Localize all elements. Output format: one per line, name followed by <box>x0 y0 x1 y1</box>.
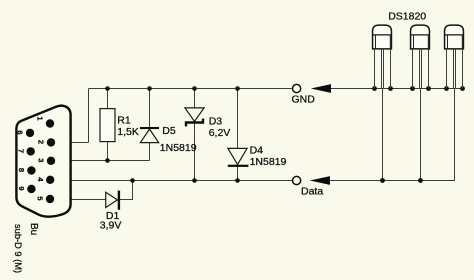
svg-text:sub-D 9 (M): sub-D 9 (M) <box>13 224 23 273</box>
svg-text:6: 6 <box>16 130 25 134</box>
svg-text:2: 2 <box>37 140 46 144</box>
svg-text:DS1820: DS1820 <box>388 10 426 22</box>
svg-text:1: 1 <box>36 116 45 120</box>
svg-text:8: 8 <box>17 168 26 172</box>
svg-text:1N5819: 1N5819 <box>160 142 197 154</box>
svg-text:1N5819: 1N5819 <box>250 156 287 168</box>
svg-text:D4: D4 <box>250 144 264 156</box>
svg-text:3: 3 <box>37 158 46 162</box>
svg-text:D5: D5 <box>162 125 176 137</box>
svg-text:Data: Data <box>301 185 323 197</box>
svg-text:3,9V: 3,9V <box>100 220 122 232</box>
svg-text:GND: GND <box>292 93 316 105</box>
svg-text:Bu: Bu <box>28 223 39 235</box>
svg-text:R1: R1 <box>117 115 131 127</box>
svg-text:D3: D3 <box>209 115 223 127</box>
svg-text:1,5K: 1,5K <box>117 126 139 138</box>
svg-text:9: 9 <box>17 186 26 190</box>
svg-text:7: 7 <box>16 149 25 153</box>
svg-text:5: 5 <box>36 196 45 200</box>
svg-text:6,2V: 6,2V <box>209 127 231 139</box>
